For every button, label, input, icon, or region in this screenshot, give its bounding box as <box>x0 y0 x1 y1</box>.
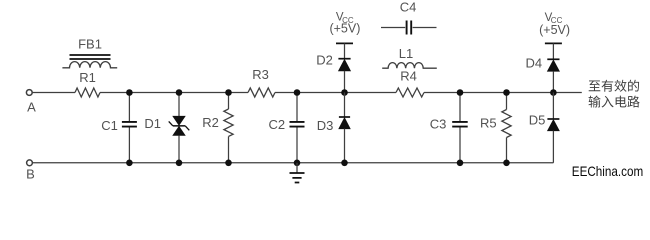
diode D3 <box>339 117 350 129</box>
svg-text:A: A <box>27 100 36 115</box>
junction C3 top <box>457 89 464 96</box>
wire R5 lower lead <box>506 138 508 163</box>
wire C1 lower lead <box>128 128 130 163</box>
junction C3 bottom <box>457 160 464 167</box>
wire C1 upper lead <box>128 93 130 122</box>
svg-text:EEChina.com: EEChina.com <box>572 164 643 179</box>
ferrite bead FB1 core bars <box>70 55 111 59</box>
diode D1 bidirectional TVS <box>169 116 190 135</box>
inductor L1 <box>382 63 437 69</box>
junction D4/D5 top <box>550 89 557 96</box>
svg-text:L1: L1 <box>399 46 413 61</box>
wire top R3-to-R4 <box>275 92 396 94</box>
resistor R4 <box>396 88 424 97</box>
wire top R1-to-R3 <box>100 92 248 94</box>
svg-text:(+5V): (+5V) <box>329 22 360 36</box>
wire node to D5 <box>552 93 554 120</box>
annotation to-effective-input-circuit <box>589 80 640 108</box>
capacitor C3 <box>452 122 468 127</box>
junction D3 bottom <box>341 160 348 167</box>
svg-text:C3: C3 <box>430 117 447 132</box>
svg-text:D3: D3 <box>317 118 334 133</box>
svg-text:C2: C2 <box>268 117 285 132</box>
svg-text:FB1: FB1 <box>78 36 102 51</box>
wire D1 upper lead <box>178 93 180 117</box>
Vcc left T-bar <box>336 42 353 44</box>
wire D4 to node <box>552 71 554 92</box>
wire top R4-to-output <box>424 92 582 94</box>
wire D5 to bottom corner <box>552 131 554 163</box>
capacitor C1 <box>122 122 137 127</box>
wire R2 upper lead <box>228 93 230 110</box>
wire C2 lower lead <box>296 128 298 163</box>
junction C2 bottom <box>294 160 301 167</box>
junction C2 top <box>294 89 301 96</box>
wire top A-to-R1 <box>33 92 76 94</box>
wire D2 to node <box>344 71 346 93</box>
svg-text:R5: R5 <box>480 115 497 130</box>
junction D1 bottom <box>176 160 183 167</box>
resistor R3 <box>248 88 275 97</box>
wire D1 lower lead <box>178 135 180 162</box>
wire Vcc to D4 <box>552 43 554 58</box>
wire R5 upper lead <box>506 93 508 110</box>
junction C1 bottom <box>126 160 133 167</box>
svg-text:R4: R4 <box>400 69 417 84</box>
svg-text:B: B <box>26 167 35 182</box>
wire C3 upper lead <box>459 93 461 122</box>
junction C1 top <box>126 89 133 96</box>
wire node to D3 <box>344 93 346 118</box>
diode D5 <box>547 119 559 131</box>
resistor R1 <box>75 88 100 97</box>
svg-text:D2: D2 <box>316 53 333 68</box>
capacitor C2 <box>290 122 305 127</box>
junction D1 top <box>176 89 183 96</box>
svg-text:R2: R2 <box>202 115 219 130</box>
junction R2 bottom <box>225 160 232 167</box>
wire bottom <box>33 162 554 164</box>
wire Vcc to D2 <box>344 43 346 58</box>
ground <box>290 163 305 183</box>
svg-text:D4: D4 <box>525 56 542 71</box>
diode D2 <box>338 59 350 71</box>
resistor R5 <box>502 110 511 138</box>
svg-text:D1: D1 <box>144 116 161 131</box>
wire C3 lower lead <box>459 128 461 163</box>
diode D4 <box>547 59 559 71</box>
svg-text:D5: D5 <box>529 113 546 128</box>
svg-text:(+5V): (+5V) <box>539 23 570 37</box>
Vcc right T-bar <box>545 42 562 44</box>
terminal A <box>26 90 32 96</box>
wire D3 lower lead <box>344 129 346 163</box>
resistor R2 <box>224 109 233 136</box>
svg-text:R3: R3 <box>252 67 269 82</box>
ferrite bead FB1 coil <box>62 62 117 68</box>
svg-text:C1: C1 <box>101 118 118 133</box>
svg-text:C4: C4 <box>400 0 417 15</box>
junction D2/D3 top <box>341 89 348 96</box>
terminal B <box>27 160 33 166</box>
junction R5 top <box>503 89 510 96</box>
junction R5 bottom <box>503 160 510 167</box>
svg-text:R1: R1 <box>79 70 96 85</box>
junction R2 top <box>225 89 232 96</box>
capacitor C4 <box>381 21 437 35</box>
wire C2 upper lead <box>296 93 298 122</box>
wire R2 lower lead <box>228 137 230 163</box>
